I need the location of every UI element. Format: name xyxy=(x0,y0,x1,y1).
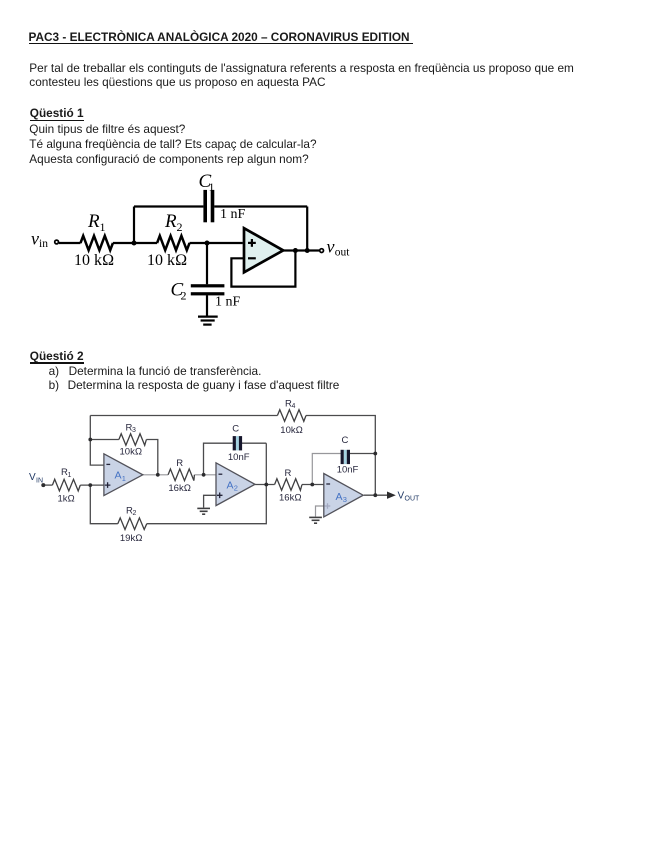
svg-text:A: A xyxy=(336,491,343,503)
svg-text:IN: IN xyxy=(36,478,43,485)
svg-text:4: 4 xyxy=(292,403,296,410)
svg-text:R: R xyxy=(285,468,292,479)
svg-text:1: 1 xyxy=(209,180,215,194)
svg-text:1 nF: 1 nF xyxy=(215,295,241,310)
svg-text:3: 3 xyxy=(343,495,347,504)
svg-text:1kΩ: 1kΩ xyxy=(58,494,75,505)
svg-text:1: 1 xyxy=(100,220,106,234)
svg-text:10nF: 10nF xyxy=(337,465,359,476)
svg-text:V: V xyxy=(398,491,405,502)
svg-text:1: 1 xyxy=(122,474,126,483)
svg-text:out: out xyxy=(335,247,351,259)
svg-text:2: 2 xyxy=(133,510,137,517)
svg-text:1: 1 xyxy=(68,472,72,479)
svg-text:10kΩ: 10kΩ xyxy=(120,446,143,457)
svg-text:10 kΩ: 10 kΩ xyxy=(74,252,114,269)
svg-text:C: C xyxy=(232,424,239,435)
svg-text:10 kΩ: 10 kΩ xyxy=(147,252,187,269)
svg-text:v: v xyxy=(31,229,39,249)
svg-text:3: 3 xyxy=(132,427,136,434)
svg-text:R: R xyxy=(87,211,100,232)
svg-text:2: 2 xyxy=(181,289,187,303)
svg-text:2: 2 xyxy=(234,484,238,493)
svg-text:A: A xyxy=(227,479,234,491)
svg-text:v: v xyxy=(327,236,335,256)
svg-text:1 nF: 1 nF xyxy=(220,207,246,222)
svg-text:19kΩ: 19kΩ xyxy=(120,533,143,544)
svg-text:OUT: OUT xyxy=(405,496,421,503)
svg-text:V: V xyxy=(29,472,36,483)
svg-text:10nF: 10nF xyxy=(228,452,250,463)
svg-text:C: C xyxy=(342,435,349,446)
svg-text:R: R xyxy=(176,458,183,469)
svg-text:in: in xyxy=(39,238,48,250)
svg-text:R: R xyxy=(164,211,177,232)
svg-text:16kΩ: 16kΩ xyxy=(168,483,191,494)
svg-text:10kΩ: 10kΩ xyxy=(280,425,303,436)
svg-text:A: A xyxy=(115,470,122,482)
svg-text:2: 2 xyxy=(177,220,183,234)
svg-text:16kΩ: 16kΩ xyxy=(279,493,302,504)
